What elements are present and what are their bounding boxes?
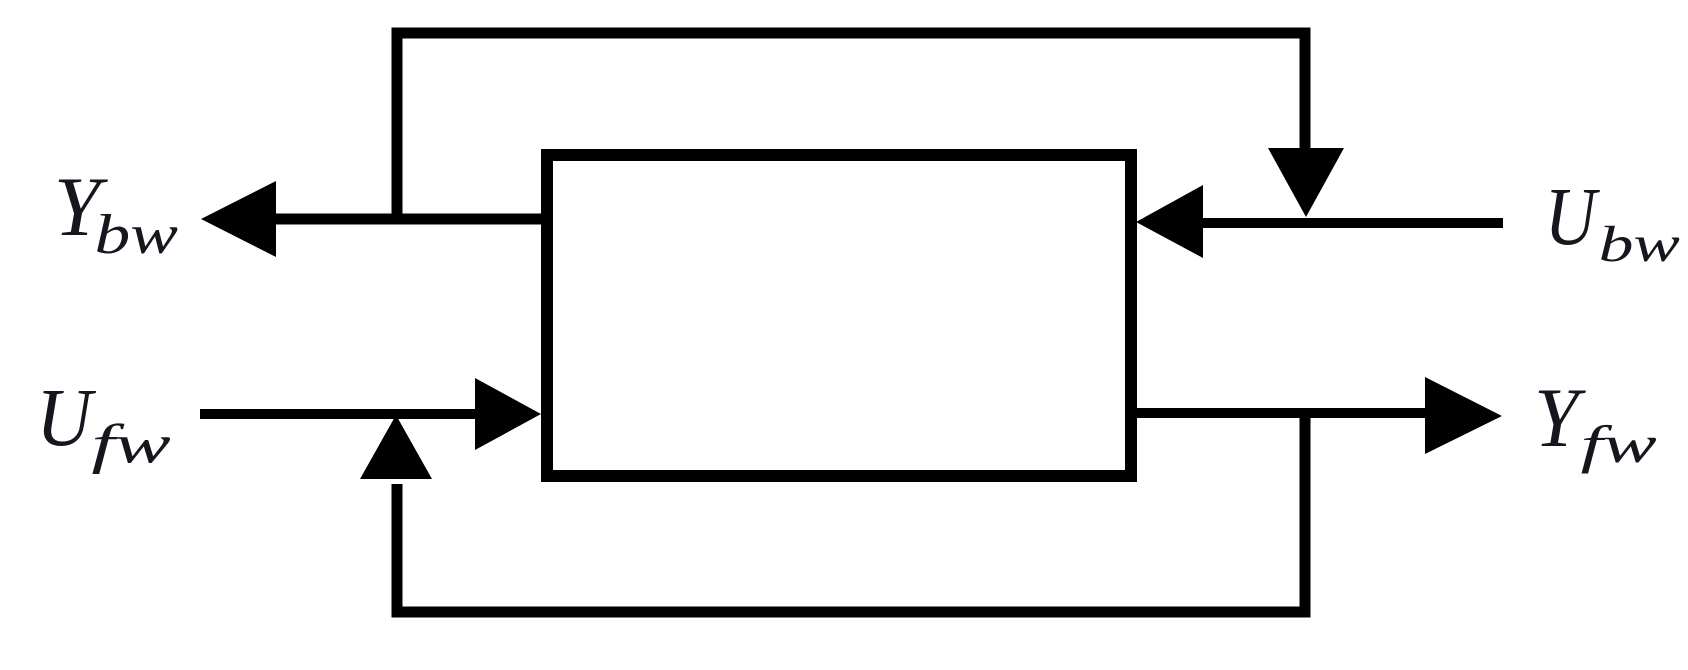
svg-text:fw: fw xyxy=(92,414,171,474)
svg-text:bw: bw xyxy=(95,204,179,266)
svg-text:U: U xyxy=(36,372,97,463)
svg-text:Y: Y xyxy=(1534,370,1586,465)
svg-text:fw: fw xyxy=(1581,415,1657,474)
svg-text:U: U xyxy=(1545,170,1601,262)
svg-text:bw: bw xyxy=(1599,216,1681,273)
